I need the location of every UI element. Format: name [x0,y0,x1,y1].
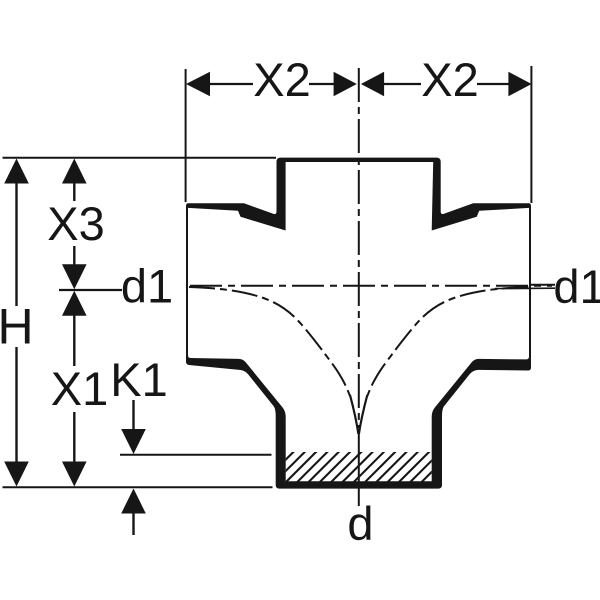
svg-text:X2: X2 [421,53,479,106]
left flow curve (dash-dot) [189,287,350,396]
X3 arrow bottom [62,264,87,289]
K1 lower arrow tail [132,512,134,535]
K1 arrow upper (tip on insertion line) [121,429,146,454]
funnel V solid arms [350,395,358,434]
svg-text:d1: d1 [553,260,600,313]
svg-text:H: H [0,299,34,355]
right flow curve (dash-dot) [367,287,528,396]
svg-text:X1: X1 [51,362,109,415]
K1 arrow lower (tip on bottom line, from below) [121,489,146,514]
X2 right extension line [530,66,532,203]
X2 arrow center-right [361,72,384,97]
X2 arrow right [508,72,531,97]
X3 arrow top [62,159,87,184]
X2 arrow left [186,72,210,97]
H arrow bottom [4,462,29,487]
fitting body wall (cross-section, filled) [186,158,531,489]
svg-text:d1: d1 [121,260,173,313]
d1 horizontal dash-dot axis line [190,285,552,287]
svg-text:d: d [347,497,373,550]
d1 right leader line [531,284,555,286]
svg-text:X3: X3 [47,197,105,250]
X2 dimension line segments [208,83,509,85]
d1 right curve tail line [495,287,555,289]
X1 dimension [73,314,75,463]
H arrow top [4,159,29,184]
X1 arrow top [62,291,87,316]
d1 left leader line [59,289,122,291]
H dimension line [15,182,17,464]
center line below funnel through hatch [358,432,360,506]
svg-text:K1: K1 [110,353,168,406]
K1 reference line [120,454,272,456]
X1 arrow bottom [62,462,87,487]
bottom reference line (H bottom) [3,486,273,488]
K1 dimension [132,400,134,431]
X3 dimension [73,182,75,266]
X2 left extension line [185,69,187,202]
center vertical dash-dot line [358,68,360,428]
hatching in bottom socket [242,442,484,492]
svg-text:X2: X2 [253,53,311,106]
X2 arrow center-left [334,72,357,97]
top reference line (H top) [3,157,277,159]
